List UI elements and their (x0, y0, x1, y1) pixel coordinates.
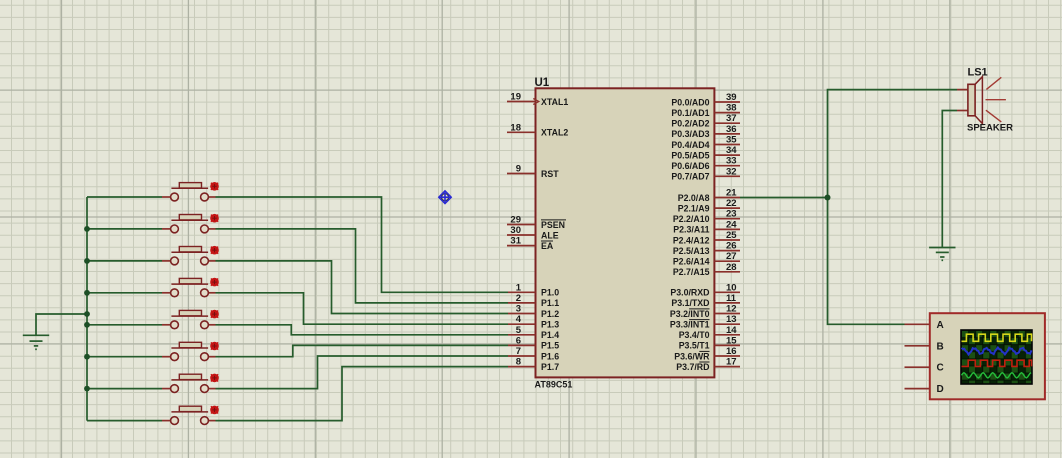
pin 4 P1.3 (508, 314, 559, 329)
svg-text:P0.7/AD7: P0.7/AD7 (671, 172, 709, 182)
svg-text:D: D (937, 384, 944, 395)
svg-text:37: 37 (726, 113, 737, 124)
pin 2 P1.1 (508, 293, 559, 308)
waveform channel C (red) (962, 360, 1032, 366)
svg-text:3: 3 (516, 304, 521, 315)
waveform channel B (blue) (962, 348, 1032, 355)
svg-text:P1.7: P1.7 (541, 362, 559, 372)
svg-text:18: 18 (510, 122, 521, 133)
oscilloscope input A (905, 320, 944, 331)
svg-text:26: 26 (726, 241, 737, 252)
svg-text:EA: EA (541, 241, 554, 251)
svg-text:P2.3/A11: P2.3/A11 (673, 225, 709, 235)
svg-text:P0.4/AD4: P0.4/AD4 (671, 140, 709, 150)
pin 14 P3.4/T0 (679, 325, 740, 340)
wire button 2 to P1.1 (216, 229, 509, 303)
svg-text:17: 17 (726, 357, 737, 368)
svg-text:9: 9 (516, 164, 521, 175)
svg-text:ALE: ALE (541, 230, 559, 240)
svg-text:34: 34 (726, 145, 737, 156)
svg-text:12: 12 (726, 304, 737, 315)
svg-text:C: C (937, 363, 944, 374)
wire ground branch from bus (36, 314, 87, 335)
wire junction down to scope A (828, 198, 905, 325)
wire junction up to speaker (828, 90, 958, 198)
pin 18 XTAL2 (507, 122, 568, 137)
oscilloscope input C (905, 363, 944, 374)
pin 1 P1.0 (508, 282, 559, 297)
pin 30 ALE (507, 225, 559, 240)
push button 4 (162, 278, 219, 297)
svg-text:7: 7 (516, 346, 521, 357)
pin 27 P2.6/A14 (673, 251, 740, 266)
oscilloscope body (930, 313, 1045, 399)
pin 34 P0.5/AD5 (671, 145, 740, 160)
svg-text:P0.6/AD6: P0.6/AD6 (671, 161, 709, 171)
push button 2 (162, 214, 219, 233)
svg-text:P2.2/A10: P2.2/A10 (673, 214, 710, 224)
svg-text:P2.6/A14: P2.6/A14 (673, 257, 710, 267)
pin 39 P0.0/AD0 (671, 92, 740, 107)
svg-text:A: A (937, 320, 944, 331)
pin 33 P0.6/AD6 (671, 156, 740, 171)
svg-text:24: 24 (726, 219, 737, 230)
wire bus to button 1 (87, 196, 162, 198)
svg-text:LS1: LS1 (968, 67, 988, 79)
svg-text:28: 28 (726, 262, 737, 273)
pin 13 P3.3/INT1 (670, 314, 740, 329)
origin marker (blue crosshair) (439, 191, 452, 204)
svg-text:P1.3: P1.3 (541, 320, 559, 330)
wire button 3 to P1.2 (216, 261, 509, 314)
svg-text:P0.2/AD2: P0.2/AD2 (671, 119, 709, 129)
svg-text:AT89C51: AT89C51 (535, 380, 573, 390)
wire button 1 to P1.0 (216, 197, 509, 292)
wire P2.0 to junction (740, 197, 828, 199)
svg-text:P2.1/A9: P2.1/A9 (678, 203, 710, 213)
wire bus to button 7 (87, 388, 162, 390)
oscilloscope input D (905, 384, 944, 395)
pin 17 P3.7/RD (676, 357, 740, 372)
svg-text:16: 16 (726, 346, 737, 357)
svg-text:6: 6 (516, 335, 521, 346)
pin 12 P3.2/INT0 (670, 304, 740, 319)
wire bus to button 5 (87, 324, 162, 326)
svg-text:19: 19 (510, 92, 521, 103)
pin 35 P0.4/AD4 (671, 135, 740, 150)
svg-text:P3.4/T0: P3.4/T0 (679, 330, 710, 340)
pin 28 P2.7/A15 (673, 262, 740, 277)
svg-text:11: 11 (726, 293, 737, 304)
svg-text:P0.5/AD5: P0.5/AD5 (671, 150, 709, 160)
svg-text:21: 21 (726, 188, 737, 199)
pin 3 P1.2 (508, 304, 559, 319)
pin 16 P3.6/WR (674, 346, 740, 361)
svg-text:4: 4 (516, 314, 522, 325)
svg-text:32: 32 (726, 166, 737, 177)
pin 23 P2.2/A10 (673, 209, 740, 224)
push button 6 (162, 342, 219, 361)
svg-text:P0.0/AD0: P0.0/AD0 (671, 97, 709, 107)
push button 5 (162, 310, 219, 329)
wire button 4 to P1.3 (216, 293, 509, 324)
pin 7 P1.6 (508, 346, 559, 361)
svg-text:P3.6/WR: P3.6/WR (674, 351, 710, 361)
wire button 7 to P1.6 (216, 356, 509, 389)
svg-text:35: 35 (726, 135, 737, 146)
svg-text:14: 14 (726, 325, 737, 336)
wire button 5 to P1.4 (216, 325, 509, 335)
svg-text:10: 10 (726, 282, 737, 293)
svg-text:P1.2: P1.2 (541, 309, 559, 319)
pin 6 P1.5 (508, 335, 559, 350)
pin 25 P2.4/A12 (673, 230, 740, 245)
pin 19 XTAL1 (507, 92, 568, 107)
junction bus/button 5 (84, 322, 90, 328)
svg-text:36: 36 (726, 124, 737, 135)
chip U1 AT89C51 body (536, 88, 715, 377)
speaker LS1 pin + (957, 89, 968, 91)
svg-text:38: 38 (726, 103, 737, 114)
svg-text:P2.0/A8: P2.0/A8 (678, 193, 710, 203)
ground (right, speaker return) (929, 248, 955, 261)
svg-text:P3.2/INT0: P3.2/INT0 (670, 309, 710, 319)
push button 7 (162, 374, 219, 393)
svg-text:8: 8 (516, 357, 521, 368)
svg-text:B: B (937, 341, 944, 352)
waveform channel A (yellow) (962, 334, 1032, 341)
svg-text:31: 31 (510, 236, 521, 247)
svg-text:XTAL2: XTAL2 (541, 128, 568, 138)
wire bus to button 8 (87, 420, 162, 422)
svg-text:XTAL1: XTAL1 (541, 97, 568, 107)
svg-text:2: 2 (516, 293, 521, 304)
svg-text:P3.1/TXD: P3.1/TXD (671, 298, 709, 308)
svg-text:P2.4/A12: P2.4/A12 (673, 235, 710, 245)
speaker LS1 pin - (957, 110, 968, 112)
svg-text:P1.1: P1.1 (541, 298, 559, 308)
push button 1 (162, 182, 219, 201)
wire button 8 to P1.7 (216, 367, 509, 421)
pin 21 P2.0/A8 (678, 188, 740, 203)
svg-text:P3.3/INT1: P3.3/INT1 (670, 320, 710, 330)
svg-text:SPEAKER: SPEAKER (967, 123, 1013, 134)
junction bus/button 2 (84, 226, 90, 232)
svg-text:P3.0/RXD: P3.0/RXD (670, 288, 709, 298)
junction bus/button 7 (84, 386, 90, 392)
pin 15 P3.5/T1 (679, 335, 740, 350)
pin 38 P0.1/AD1 (671, 103, 740, 118)
svg-text:5: 5 (516, 325, 522, 336)
pin 5 P1.4 (508, 325, 559, 340)
svg-text:25: 25 (726, 230, 737, 241)
svg-text:15: 15 (726, 335, 737, 346)
svg-text:PSEN: PSEN (541, 220, 565, 230)
svg-text:RST: RST (541, 169, 559, 179)
svg-text:P1.0: P1.0 (541, 288, 559, 298)
junction bus/button 6 (84, 354, 90, 360)
svg-text:1: 1 (516, 282, 522, 293)
junction bus/button 3 (84, 258, 90, 264)
svg-text:P2.7/A15: P2.7/A15 (673, 267, 710, 277)
svg-text:27: 27 (726, 251, 737, 262)
svg-text:P0.3/AD3: P0.3/AD3 (671, 129, 709, 139)
svg-text:23: 23 (726, 209, 737, 220)
svg-text:U1: U1 (535, 77, 550, 89)
svg-text:13: 13 (726, 314, 737, 325)
push button 3 (162, 246, 219, 265)
ground (left) (23, 335, 49, 349)
oscilloscope input B (905, 341, 944, 352)
junction bus/ground (84, 311, 90, 317)
svg-text:P1.5: P1.5 (541, 341, 559, 351)
wire speaker return to ground (942, 111, 957, 248)
svg-text:P1.6: P1.6 (541, 351, 559, 361)
svg-text:P3.7/RD: P3.7/RD (676, 362, 709, 372)
pin 11 P3.1/TXD (671, 293, 740, 308)
svg-text:22: 22 (726, 198, 737, 209)
speaker LS1 sound waves (986, 77, 1006, 122)
push button 8 (162, 406, 219, 425)
pin 26 P2.5/A13 (673, 241, 740, 256)
wire bus vertical (buttons common) (86, 197, 88, 421)
pin 9 RST (507, 164, 559, 179)
oscilloscope screen (961, 330, 1032, 384)
pin 10 P3.0/RXD (670, 282, 740, 297)
wire button 6 to P1.5 (216, 345, 509, 356)
svg-text:P0.1/AD1: P0.1/AD1 (671, 108, 709, 118)
wire bus to button 6 (87, 356, 162, 358)
wire bus to button 3 (87, 260, 162, 262)
waveform channel D (green) (962, 373, 1032, 378)
svg-text:P1.4: P1.4 (541, 330, 559, 340)
svg-text:39: 39 (726, 92, 737, 103)
svg-text:33: 33 (726, 156, 737, 167)
wire bus to button 4 (87, 292, 162, 294)
pin 8 P1.7 (508, 357, 559, 372)
pin 32 P0.7/AD7 (671, 166, 740, 181)
pin 22 P2.1/A9 (678, 198, 740, 213)
svg-text:P2.5/A13: P2.5/A13 (673, 246, 710, 256)
svg-text:P3.5/T1: P3.5/T1 (679, 341, 710, 351)
pin 36 P0.3/AD3 (671, 124, 740, 139)
wire bus to button 2 (87, 228, 162, 230)
svg-text:30: 30 (510, 225, 521, 236)
pin 29 PSEN (507, 215, 566, 230)
speaker LS1 body (968, 77, 983, 124)
pin 31 EA (507, 236, 554, 251)
pin 24 P2.3/A11 (673, 219, 740, 234)
junction node at 827.5,197.5 (825, 195, 831, 201)
svg-text:29: 29 (510, 215, 521, 226)
pin 37 P0.2/AD2 (671, 113, 740, 128)
junction bus/button 4 (84, 290, 90, 296)
